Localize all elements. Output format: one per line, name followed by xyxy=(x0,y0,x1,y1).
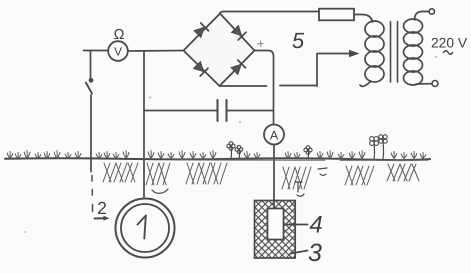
svg-text:220 V: 220 V xyxy=(431,36,468,51)
svg-text:2: 2 xyxy=(97,198,107,218)
svg-text:4: 4 xyxy=(309,212,322,239)
svg-text:A: A xyxy=(270,128,279,142)
svg-text:3: 3 xyxy=(308,239,322,267)
svg-text:5: 5 xyxy=(292,28,305,53)
svg-text:V: V xyxy=(114,44,122,58)
